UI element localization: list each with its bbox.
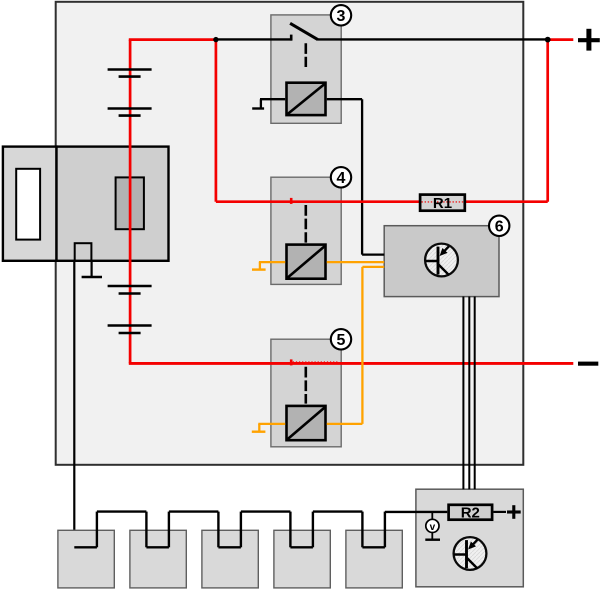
- switch 4 blade (closed, dotted): [293, 200, 308, 202]
- resistor R1: [420, 195, 465, 212]
- coil 3: [287, 83, 326, 115]
- wire junction to switch 3: [216, 38, 292, 40]
- switch 3 fixed contact tick: [290, 35, 293, 41]
- switch 3 blade: [290, 23, 318, 39]
- battery cell pair 2: [108, 109, 152, 116]
- svg-text:4: 4: [337, 170, 346, 187]
- svg-text:3: 3: [337, 8, 346, 25]
- junction node right: [545, 37, 551, 43]
- box 3 contactor: [271, 15, 341, 123]
- switch 3 actuator link: [304, 43, 307, 67]
- coil 5 wire to control unit (orange): [327, 267, 384, 424]
- battery cell pair 4: [108, 326, 152, 334]
- control bus wire 3: [474, 297, 476, 490]
- coil 3 wire to control unit: [327, 99, 384, 254]
- red main wire from battery: [129, 40, 574, 364]
- control bus wire 2: [468, 297, 470, 490]
- switch 5 blade (closed, dotted): [293, 361, 340, 363]
- cell module 4: [274, 530, 330, 588]
- box 4 contactor: [271, 177, 341, 284]
- label circle 5: [331, 329, 351, 349]
- cell module 3: [202, 530, 258, 588]
- battery cell pair 3: [108, 286, 152, 294]
- cell bank series bus: [74, 512, 385, 548]
- junction node left: [213, 37, 218, 42]
- coil 4: [287, 245, 326, 279]
- connector insert block: [116, 177, 144, 229]
- main enclosure (battery system housing): [56, 2, 524, 465]
- control bus wire 1: [462, 297, 464, 490]
- coil 5 left terminal wire (orange): [252, 424, 285, 432]
- cell module 1: [58, 530, 114, 588]
- switch 5 actuator link: [304, 367, 307, 404]
- voltmeter V: [425, 513, 440, 540]
- connector pin notch: [75, 243, 92, 260]
- coil 4 wire to control unit (orange): [327, 261, 384, 263]
- coil 3 left terminal wire: [252, 99, 285, 108]
- label circle 3: [331, 5, 351, 25]
- connector housing left section: [3, 147, 57, 261]
- bus wire to monitoring unit: [385, 511, 447, 513]
- transistor U6: [425, 244, 458, 277]
- wire R2 to plus tap: [494, 511, 507, 513]
- monitoring unit box: [416, 489, 523, 587]
- minus terminal: [578, 362, 598, 366]
- connector window: [16, 169, 40, 240]
- coil 5: [287, 406, 326, 440]
- wire connector to cell bank: [73, 262, 75, 548]
- ground at connector: [82, 261, 102, 277]
- svg-text:R1: R1: [433, 195, 452, 212]
- coil 4 left terminal wire (orange): [252, 262, 285, 270]
- connector housing main section: [57, 147, 169, 261]
- switch 5 contact tick: [290, 359, 293, 365]
- box 5 contactor: [271, 339, 341, 447]
- svg-text:6: 6: [495, 219, 504, 236]
- svg-text:5: 5: [337, 332, 346, 349]
- plus terminal: [578, 29, 600, 51]
- label circle 4: [331, 167, 351, 187]
- cell module 5: [346, 530, 402, 588]
- red precharge branch: [216, 40, 573, 202]
- wire switch 3 to plus junction: [317, 38, 547, 40]
- plus tap: [507, 505, 521, 519]
- transistor U7 (monitoring): [454, 537, 487, 570]
- svg-text:R2: R2: [461, 505, 480, 522]
- battery cell pair 1: [108, 70, 152, 77]
- resistor R2: [449, 505, 493, 522]
- switch 4 contact tick: [290, 198, 293, 204]
- svg-text:v: v: [430, 522, 436, 533]
- switch 4 actuator link: [304, 205, 307, 243]
- label circle 6: [489, 216, 509, 236]
- cell module 2: [130, 530, 186, 588]
- box 6 control unit: [384, 226, 499, 297]
